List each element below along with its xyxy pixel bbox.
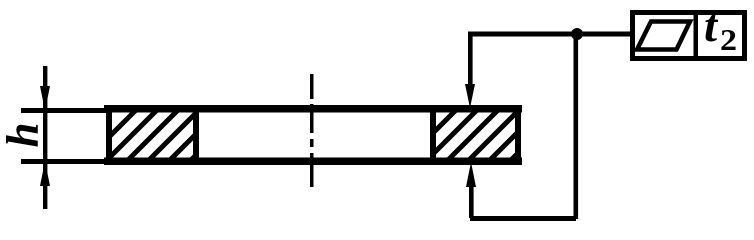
- svg-text:2: 2: [720, 22, 737, 57]
- leader vertical from dot down: [574, 34, 579, 219]
- hatching of section box 1: [78, 105, 267, 168]
- leader junction dot: [571, 28, 583, 40]
- centerline (dash-dot axis): [310, 74, 314, 187]
- extension line bottom (thin): [21, 159, 109, 164]
- tolerance frame divider: [694, 10, 699, 61]
- hatching of section box 2: [398, 105, 587, 168]
- arrowhead down to plate top face: [465, 84, 475, 108]
- plate top surface line: [104, 105, 522, 113]
- tolerance frame outer box: [633, 13, 745, 59]
- leader top-left vertical with arrow: [468, 32, 473, 86]
- arrowhead up (bottom of h dimension): [40, 161, 50, 186]
- section box 1 outline: [109, 109, 196, 162]
- arrowhead up to plate bottom face: [466, 162, 476, 187]
- arrowhead down (top of h dimension): [40, 86, 50, 111]
- leader horizontal to frame: [470, 32, 632, 37]
- leader bottom-left vertical with arrow: [469, 182, 474, 218]
- leader bottom horizontal: [470, 216, 576, 221]
- section box 2 outline: [433, 109, 518, 162]
- svg-text:t: t: [704, 0, 719, 52]
- svg-text:h: h: [0, 122, 48, 147]
- flatness symbol (parallelogram): [637, 22, 690, 50]
- dimension line h (vertical): [43, 66, 47, 209]
- extension line top (thin): [21, 108, 109, 113]
- plate bottom surface line: [104, 158, 522, 166]
